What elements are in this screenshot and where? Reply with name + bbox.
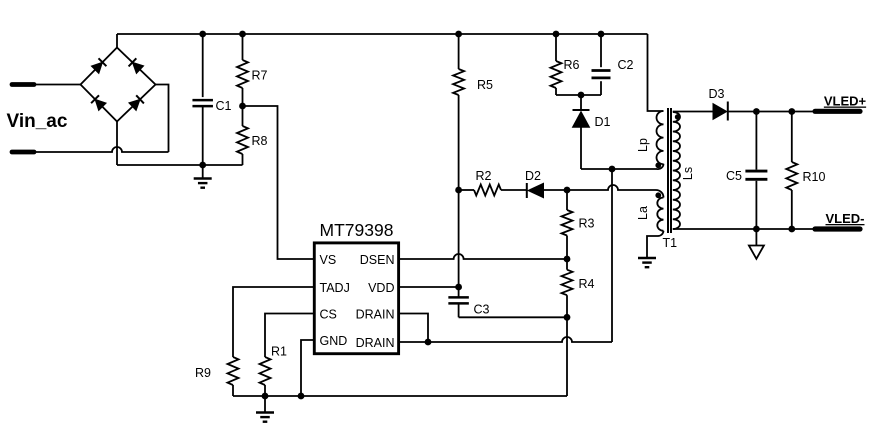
svg-text:D1: D1	[595, 115, 611, 129]
wire top rail	[117, 33, 648, 35]
node R7/R8 junction	[239, 103, 246, 110]
bridge rectifier diode bottom-left	[95, 99, 106, 110]
bridge rectifier diode top-left	[91, 62, 102, 73]
svg-text:DRAIN: DRAIN	[356, 307, 395, 321]
Lp phase dot	[655, 162, 661, 168]
wire right vertex down	[156, 85, 169, 153]
capacitor C5	[755, 112, 757, 170]
diode D3	[713, 104, 727, 120]
wire R7-R8	[242, 88, 244, 126]
wire La bottom	[647, 231, 664, 249]
wire R6 top	[555, 34, 557, 61]
bridge diamond outline	[81, 48, 156, 122]
svg-text:Vin_ac: Vin_ac	[7, 111, 68, 132]
node drain tap on Lp	[609, 166, 616, 173]
terminal VLED- bar	[815, 226, 860, 231]
transformer core	[667, 108, 669, 233]
Ls phase dot	[675, 114, 681, 120]
capacitor C2	[600, 34, 602, 67]
svg-text:R5: R5	[477, 78, 493, 92]
ground under La	[646, 249, 648, 258]
wire Ls to D3	[673, 111, 713, 113]
svg-text:R8: R8	[252, 134, 268, 148]
wire DSEN with hop	[399, 254, 567, 259]
svg-text:VLED+: VLED+	[824, 94, 867, 109]
svg-text:GND: GND	[320, 334, 348, 348]
svg-text:D2: D2	[525, 169, 541, 183]
wire bridge top to rail	[116, 34, 118, 48]
wire bottom input with hop	[34, 147, 169, 152]
resistor R8	[237, 126, 248, 154]
wire R3 top	[566, 190, 568, 210]
ground under C1	[202, 165, 204, 179]
capacitor C3	[448, 296, 469, 299]
node DSEN junction	[564, 256, 571, 263]
resistor R4	[562, 270, 573, 296]
resistor R9	[228, 357, 239, 385]
wire R6 bottom	[555, 88, 557, 95]
terminal Vin_ac bottom stub	[12, 150, 34, 155]
wire output bottom rail	[673, 228, 814, 230]
wire La lead-in	[651, 190, 664, 198]
wire sense ground drop	[566, 317, 568, 396]
wire DRAIN2 with hop	[399, 337, 612, 342]
wire bridge bottom down	[116, 122, 118, 166]
wire C3 bottom	[459, 316, 567, 318]
svg-text:R10: R10	[803, 170, 826, 184]
wire R5 bottom	[458, 95, 460, 297]
svg-text:C1: C1	[216, 99, 232, 113]
svg-text:R2: R2	[476, 169, 492, 183]
svg-text:C5: C5	[726, 169, 742, 183]
svg-text:CS: CS	[320, 307, 337, 321]
svg-text:Lp: Lp	[636, 138, 650, 152]
resistor R7	[237, 60, 248, 88]
node C5 top	[753, 108, 760, 115]
svg-text:R4: R4	[579, 277, 595, 291]
node R6 top	[553, 31, 560, 38]
node R1 ground	[262, 393, 269, 400]
node R10 bottom	[788, 226, 795, 233]
svg-text:R7: R7	[252, 69, 268, 83]
node C2 top	[598, 31, 605, 38]
wire R8 bottom	[242, 154, 244, 165]
diode D2	[528, 183, 544, 197]
ground under R1	[264, 396, 266, 413]
wire R3 bottom	[566, 236, 568, 270]
wire VS feed	[243, 106, 315, 259]
svg-text:DSEN: DSEN	[360, 253, 395, 267]
wire bottom rail	[117, 164, 243, 166]
ground signal triangle	[755, 229, 757, 246]
resistor R5	[453, 69, 464, 95]
bridge rectifier diode top-right	[133, 62, 144, 73]
svg-text:VLED-: VLED-	[826, 211, 865, 226]
node drain junction	[425, 339, 432, 346]
node R10 top	[788, 108, 795, 115]
terminal Vin_ac top stub	[12, 82, 34, 87]
svg-text:R6: R6	[564, 58, 580, 72]
wire top input	[34, 84, 81, 86]
resistor R6	[551, 61, 562, 88]
node R2 tap	[455, 187, 462, 194]
wire D3 to VLED+	[728, 111, 814, 113]
wire CS	[265, 314, 314, 358]
wire TADJ	[233, 287, 314, 357]
bridge rectifier diode bottom-right	[129, 99, 140, 110]
node R5 top	[455, 31, 462, 38]
wire R7 top	[242, 34, 244, 60]
wire DRAIN1	[399, 314, 428, 343]
svg-text:D3: D3	[709, 87, 725, 101]
terminal VLED+ bar	[815, 109, 860, 114]
svg-text:C3: C3	[474, 303, 490, 317]
wire VDD	[399, 286, 459, 288]
svg-text:C2: C2	[618, 58, 634, 72]
wire R5 top	[458, 34, 460, 69]
transformer La winding	[657, 198, 663, 231]
wire GND pin	[301, 340, 314, 396]
wire R1 bottom	[264, 385, 266, 396]
node C1 top	[199, 31, 206, 38]
wire Lp bottom	[581, 168, 657, 170]
wire R4 bottom	[566, 295, 568, 317]
node VDD	[455, 284, 462, 291]
wire ground rail	[233, 395, 567, 397]
wire rail to Lp	[648, 34, 664, 111]
svg-text:T1: T1	[663, 236, 678, 250]
resistor R10	[791, 112, 793, 163]
node GND rail	[298, 393, 305, 400]
resistor R3	[562, 210, 573, 236]
node D2/R3 junction	[564, 187, 571, 194]
svg-text:TADJ: TADJ	[320, 281, 350, 295]
svg-text:Ls: Ls	[681, 167, 695, 180]
capacitor C1	[202, 34, 204, 97]
diode D1	[580, 95, 582, 110]
node C1 bottom	[199, 162, 206, 169]
svg-text:VDD: VDD	[368, 281, 394, 295]
wire D2 to La with hop	[567, 185, 651, 190]
transformer Lp winding	[657, 111, 664, 164]
La phase dot	[655, 192, 661, 198]
op-amp U1 MT79398 box	[314, 243, 398, 354]
svg-text:MT79398: MT79398	[320, 220, 394, 240]
svg-text:R1: R1	[271, 345, 287, 359]
node R7 top	[239, 31, 246, 38]
svg-text:R9: R9	[195, 366, 211, 380]
node D1 top	[578, 92, 585, 99]
transformer Ls winding	[673, 112, 680, 229]
resistor R2	[459, 189, 474, 191]
node R4/C3 junction	[564, 314, 571, 321]
node C5 bottom	[753, 226, 760, 233]
svg-text:La: La	[636, 206, 650, 220]
svg-text:VS: VS	[320, 253, 337, 267]
wire drain vertical	[611, 169, 613, 342]
wire R2-D2	[501, 189, 527, 191]
wire R9 bottom	[232, 385, 234, 396]
resistor R1	[260, 357, 271, 385]
svg-text:DRAIN: DRAIN	[356, 336, 395, 350]
svg-text:R3: R3	[579, 217, 595, 231]
